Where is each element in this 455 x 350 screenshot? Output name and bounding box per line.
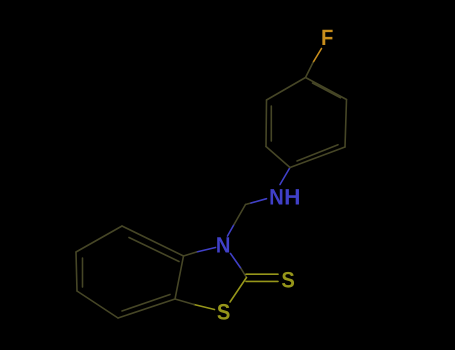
wire C2'-C1' inner double bbox=[297, 145, 338, 161]
wire N3-C3a dark half bbox=[184, 252, 197, 256]
node N3 bond to C3a blue half bbox=[197, 248, 216, 253]
wire C4-C5 bbox=[76, 226, 122, 252]
wire C4'-C3' bbox=[306, 78, 347, 100]
atom label S1 ring bbox=[217, 304, 229, 320]
atom label N3 bbox=[217, 237, 229, 252]
wire C2'-C1' bbox=[290, 147, 345, 168]
wire C2-S1 ring bond bbox=[230, 278, 247, 303]
wire C6-C7 bbox=[77, 291, 118, 318]
wire C4'-C3' inner double bbox=[313, 83, 341, 98]
wire C7-C7a inner double bbox=[122, 295, 170, 312]
atom label F bbox=[322, 30, 332, 45]
wire C3a-C4 bbox=[122, 226, 184, 256]
wire S1-C7a dark half bbox=[175, 299, 194, 305]
wire C2=S thione double bond lower bbox=[246, 280, 278, 282]
wire F-C4' dark half bbox=[306, 63, 314, 78]
wire N3-C2 dark half bbox=[241, 269, 247, 278]
atom label NH nitrogen bbox=[271, 189, 283, 204]
wire C7-C7a bbox=[118, 299, 175, 318]
wire C6'-C5' inner double bbox=[270, 106, 272, 141]
atom label NH hydrogen bbox=[286, 189, 299, 204]
wire S1-C7a olive half bbox=[194, 305, 215, 310]
wire CH2-N3 dark half bbox=[234, 205, 246, 225]
wire NH-C1' bond bbox=[280, 168, 290, 185]
wire CH2-NH blue half bbox=[251, 199, 267, 203]
wire C1'-C6' bbox=[266, 147, 290, 168]
wire C6'-C5' bbox=[265, 100, 268, 147]
wire C5-C6 inner double bbox=[82, 258, 84, 287]
wire F-C4' gold half bbox=[313, 49, 322, 63]
atom label S thione bbox=[282, 272, 294, 288]
wire C5'-C4' bbox=[267, 78, 306, 101]
wire C3a-C4 inner double bbox=[129, 238, 179, 262]
wire C7a-C3a fused bond bbox=[175, 256, 184, 299]
wire N3-CH2 blue half bbox=[228, 225, 235, 237]
wire C3'-C2' bbox=[345, 100, 347, 148]
wire C5-C6 bbox=[76, 252, 77, 291]
wire C2=S thione double bond upper bbox=[246, 273, 278, 275]
wire CH2-NH dark half bbox=[246, 203, 252, 205]
wire N3-C2 blue half bbox=[231, 254, 242, 269]
